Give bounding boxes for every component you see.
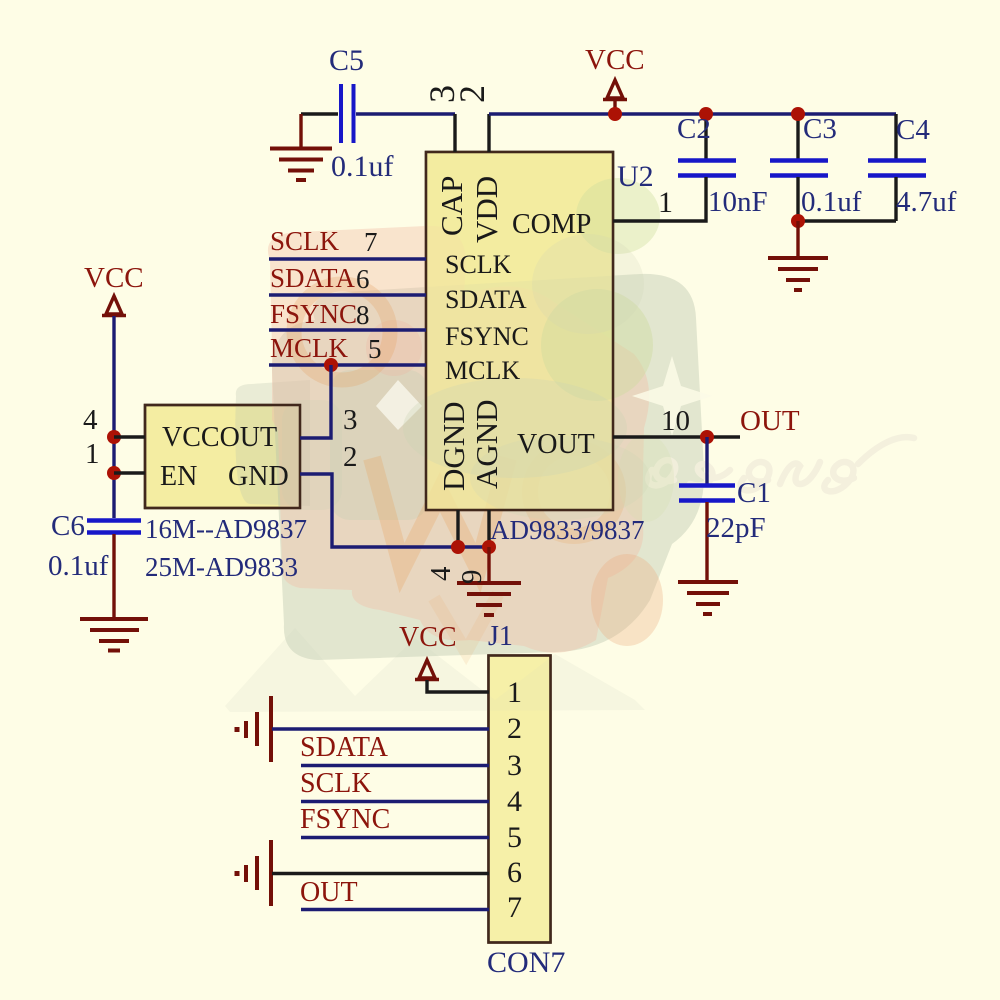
wire AGND stub (487, 510, 490, 547)
svg-text:U2: U2 (617, 160, 654, 193)
chip pin name FSYNC (445, 322, 529, 351)
svg-text:22pF: 22pF (706, 512, 766, 544)
connector J1 fill re-tint (489, 656, 550, 941)
wire VDD pin 2 to VCC rail (487, 114, 490, 152)
wire SCLK input (269, 257, 426, 260)
capacitor C5 (341, 84, 354, 143)
orange W (372, 458, 508, 568)
svg-text:C4: C4 (896, 114, 930, 146)
svg-text:25M-AD9833: 25M-AD9833 (145, 552, 298, 582)
svg-text:3: 3 (343, 404, 358, 436)
svg-text:5: 5 (507, 821, 522, 854)
label C5 (329, 44, 364, 77)
orange V bottom (434, 594, 498, 652)
sage left extension (235, 380, 310, 506)
svg-text:3: 3 (507, 749, 522, 782)
pin number 8 (356, 300, 370, 330)
connector J1 body (489, 656, 551, 943)
svg-text:8: 8 (356, 300, 370, 330)
svg-text:VCC: VCC (84, 262, 144, 294)
wire VCC top rail (489, 112, 896, 115)
wire C3 to C4 bottom (798, 219, 896, 222)
chip name VCCOUT (162, 422, 277, 453)
J1 pin number 1 (507, 676, 522, 709)
chip pin name SDATA (445, 285, 527, 314)
pin number 1 U3 (85, 438, 100, 470)
wire J1 pin1 (427, 680, 489, 692)
sage mountain wash bottom (225, 628, 645, 712)
ground sideways at J1 pin6 (237, 840, 271, 906)
wire C5 ground drop (299, 114, 302, 147)
svg-text:MCLK: MCLK (445, 356, 520, 385)
svg-text:SCLK: SCLK (300, 768, 372, 799)
wire U3 pin4 stub (114, 435, 145, 438)
power VCC J1 symbol (415, 660, 439, 680)
wire C4 branch lower (894, 177, 897, 221)
designator U2 (617, 160, 654, 193)
label OUT net (740, 405, 800, 437)
designator J1 (488, 621, 513, 652)
ground at C1 (678, 582, 738, 614)
wire VCC left vertical (112, 316, 115, 518)
J1 pin number 3 (507, 749, 522, 782)
wire J1 pin6 (272, 872, 489, 875)
chip pin name VOUT (517, 429, 595, 460)
IC U2 fill re-tint (427, 153, 612, 509)
ground sideways at J1 pin2 (237, 696, 271, 762)
designator C1 (737, 477, 771, 509)
svg-text:16M--AD9837: 16M--AD9837 (145, 514, 307, 544)
wire J1 pin4 (301, 800, 489, 803)
svg-text:1: 1 (85, 438, 100, 470)
svg-text:4: 4 (83, 404, 98, 436)
wire DGND stub (456, 510, 459, 547)
ground at C5 (270, 149, 332, 181)
pink disc at MCLK (366, 320, 422, 376)
svg-text:OUT: OUT (300, 877, 358, 908)
capacitor C2 (678, 161, 736, 176)
node U3 pin4 junction (107, 430, 121, 444)
wire C1 ground drop (705, 502, 708, 581)
svg-text:OUT: OUT (740, 405, 800, 437)
node C3 bottom junction (791, 214, 805, 228)
green leaf circle mid chip (541, 289, 653, 401)
value 0.1uf C5 (331, 150, 394, 183)
svg-text:C1: C1 (737, 477, 771, 509)
IC U3 VCCOUT body (145, 405, 300, 508)
orange P lower (530, 448, 618, 536)
svg-text:VCC: VCC (585, 44, 645, 76)
power VCC top symbol (603, 80, 627, 110)
power VCC left symbol (102, 296, 126, 316)
svg-text:2: 2 (452, 85, 492, 103)
label SDATA net (270, 263, 355, 293)
green leaf right lower (618, 434, 674, 522)
svg-text:4.7uf: 4.7uf (896, 186, 957, 218)
pin number 3 CAP rotated (422, 85, 462, 103)
node VCC rail junction (608, 107, 622, 121)
svg-text:C3: C3 (803, 113, 837, 145)
chip pin name EN (160, 461, 197, 492)
label MCLK net (270, 333, 349, 363)
chip pin name DGND rotated (436, 401, 471, 491)
sage band lower chip (403, 378, 627, 478)
wire J1 pin3 (301, 764, 489, 767)
J1 pin number 5 (507, 821, 522, 854)
svg-text:0.1uf: 0.1uf (48, 550, 109, 582)
svg-text:C5: C5 (329, 44, 364, 77)
note 16M--AD9837 (145, 514, 307, 544)
ground at C3 (768, 258, 828, 290)
wire MCLK input (269, 363, 426, 366)
svg-text:SDATA: SDATA (270, 263, 355, 293)
pin number 7 (364, 227, 378, 257)
svg-text:AD9833/9837: AD9833/9837 (490, 515, 645, 545)
wire FSYNC input (269, 328, 426, 331)
label SCLK J1 (300, 768, 372, 799)
chip pin name MCLK (445, 356, 520, 385)
pin number 1 COMP (658, 186, 673, 219)
orange ring P (294, 284, 390, 380)
svg-text:FSYNC: FSYNC (445, 322, 529, 351)
svg-text:VDD: VDD (469, 176, 504, 243)
designator C4 (896, 114, 930, 146)
svg-text:SCLK: SCLK (445, 250, 512, 279)
chip pin name VDD rotated (469, 176, 504, 243)
wire C6 ground drop (112, 534, 115, 618)
label FSYNC J1 (300, 804, 390, 835)
svg-text:7: 7 (364, 227, 378, 257)
sage grey backdrop blob (272, 274, 704, 660)
svg-text:SDATA: SDATA (445, 285, 527, 314)
label VCC J1 (399, 622, 457, 653)
wire C1 branch upper (705, 437, 708, 484)
svg-text:6: 6 (507, 856, 522, 889)
J1 pin number 4 (507, 785, 522, 818)
svg-text:10: 10 (661, 405, 690, 437)
svg-text:AGND: AGND (469, 399, 504, 489)
ground at AGND (457, 583, 521, 615)
wire U3 pin2 to ground net (300, 474, 489, 547)
wire SDATA input (269, 293, 426, 296)
svg-text:1: 1 (658, 186, 673, 219)
svg-text:4: 4 (507, 785, 522, 818)
label VCC top (585, 44, 645, 76)
wire C5 to CAP pin 3 (356, 114, 455, 152)
svg-text:0.1uf: 0.1uf (331, 150, 394, 183)
wire C5 left to cap (301, 112, 338, 115)
node U3 pin1 junction (107, 466, 121, 480)
value 22pF (706, 512, 766, 544)
part name CON7 (487, 946, 565, 979)
svg-text:GND: GND (228, 461, 289, 492)
note 25M-AD9833 (145, 552, 298, 582)
J1 pin number 2 (507, 712, 522, 745)
value 0.1uf C3 (801, 186, 862, 218)
svg-text:FSYNC: FSYNC (300, 804, 390, 835)
svg-text:EN: EN (160, 461, 197, 492)
svg-text:VCC: VCC (399, 622, 457, 653)
white star sparkle (632, 356, 712, 436)
svg-text:CON7: CON7 (487, 946, 565, 979)
chip pin name SCLK (445, 250, 512, 279)
svg-text:VCCOUT: VCCOUT (162, 422, 277, 453)
sage patch below MCLK (330, 370, 428, 520)
svg-text:7: 7 (507, 891, 522, 924)
svg-text:4: 4 (425, 566, 457, 581)
svg-text:VOUT: VOUT (517, 429, 595, 460)
svg-text:10nF: 10nF (708, 186, 768, 218)
wire J1 pin2 (272, 727, 489, 730)
pin number 5 (368, 334, 382, 364)
svg-text:2: 2 (343, 441, 358, 473)
capacitor C4 (868, 161, 926, 176)
chip pin name CAP rotated (434, 176, 469, 236)
svg-text:C6: C6 (51, 510, 85, 542)
pin number 2 VDD rotated (452, 85, 492, 103)
pin number 4 DGND rotated (425, 566, 457, 581)
value 10nF (708, 186, 768, 218)
wire C4 branch upper (894, 114, 897, 159)
designator C2 (677, 113, 711, 145)
wire VOUT output (613, 435, 740, 438)
svg-text:SCLK: SCLK (270, 226, 340, 256)
svg-text:CAP: CAP (434, 176, 469, 236)
J1 pin number 6 (507, 856, 522, 889)
connector J1 border restroke (489, 656, 551, 943)
node C2 junction (699, 107, 713, 121)
wire J1 pin7 (301, 908, 489, 911)
wire U3 pin1 stub (114, 471, 145, 474)
label SCLK net (270, 226, 340, 256)
chip pin name AGND rotated (469, 399, 504, 489)
svg-text:C2: C2 (677, 113, 711, 145)
svg-text:1: 1 (507, 676, 522, 709)
green leaf top chip (576, 178, 660, 254)
pin number 2 U3 (343, 441, 358, 473)
svg-text:DGND: DGND (436, 401, 471, 491)
svg-text:2: 2 (507, 712, 522, 745)
orange blob below chip right (591, 554, 663, 646)
svg-text:5: 5 (368, 334, 382, 364)
designator C6 (51, 510, 85, 542)
value 4.7uf C4 (896, 186, 957, 218)
value 0.1uf C6 (48, 550, 109, 582)
capacitor C6 (87, 521, 141, 533)
node AGND junction (482, 540, 496, 554)
wire C3 branch upper (796, 114, 799, 159)
svg-text:0.1uf: 0.1uf (801, 186, 862, 218)
wire C3 ground drop (796, 221, 799, 257)
svg-text:SDATA: SDATA (300, 732, 389, 763)
wire J1 pin5 (301, 836, 489, 839)
IC U2 border restroke (426, 152, 613, 510)
pin number 10 VOUT (661, 405, 690, 437)
pin number 9 AGND rotated (456, 570, 488, 585)
node VOUT junction (700, 430, 714, 444)
wire AGND ground drop (487, 547, 490, 582)
svg-text:J1: J1 (488, 621, 513, 652)
IC U3 border restroke (145, 405, 300, 508)
IC U2 body (426, 152, 613, 510)
part name AD9833/9837 (490, 515, 645, 545)
chip pin name GND (228, 461, 289, 492)
capacitor C3 (770, 161, 828, 176)
white script estone (648, 437, 914, 491)
pin number 4 U3 (83, 404, 98, 436)
label FSYNC net (270, 299, 357, 329)
wire C2 branch lower to COMP (613, 177, 706, 221)
pin number 6 (356, 264, 370, 294)
chip pin name COMP (512, 209, 591, 240)
J1 pin number 7 (507, 891, 522, 924)
svg-text:FSYNC: FSYNC (270, 299, 357, 329)
svg-text:6: 6 (356, 264, 370, 294)
wire MCLK to U3 pin3 (300, 365, 331, 438)
pink blob (268, 226, 649, 653)
svg-text:MCLK: MCLK (270, 333, 349, 363)
designator C3 (803, 113, 837, 145)
label VCC left (84, 262, 144, 294)
node MCLK junction (324, 358, 338, 372)
ground at C6 (80, 619, 148, 651)
wire C2 branch upper (704, 114, 707, 159)
label SDATA J1 (300, 732, 389, 763)
svg-text:9: 9 (456, 570, 488, 585)
node DGND junction (451, 540, 465, 554)
capacitor C1 (679, 486, 735, 501)
sage band mid chip (532, 234, 644, 334)
svg-text:COMP: COMP (512, 209, 591, 240)
pin number 3 U3 (343, 404, 358, 436)
node C3 top junction (791, 107, 805, 121)
label OUT J1 (300, 877, 358, 908)
wire C3 branch lower (796, 177, 799, 221)
watermark logo (225, 153, 914, 941)
